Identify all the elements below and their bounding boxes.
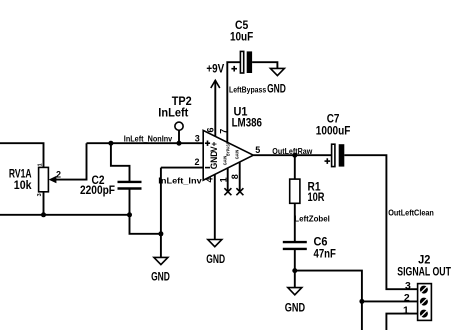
junction under RV1A (41, 212, 46, 217)
pin name GAIN pin1 (223, 156, 228, 166)
svg-text:InLeft_Inv: InLeft_Inv (158, 176, 202, 185)
svg-text:BYPASS: BYPASS (225, 142, 230, 156)
svg-text:SIGNAL OUT: SIGNAL OUT (397, 264, 451, 278)
connector J2 (418, 284, 432, 321)
svg-text:10R: 10R (308, 190, 325, 204)
svg-text:4: 4 (204, 177, 214, 182)
wire C6 node to J2 pin2 (295, 271, 362, 330)
wire pin 7 to C5 (227, 62, 240, 142)
svg-text:GND: GND (285, 301, 305, 315)
wire InLeft_NonInv net (87, 142, 204, 144)
svg-text:2: 2 (194, 157, 199, 167)
junction C2 tap (108, 141, 113, 146)
wire bottom net (0, 214, 130, 216)
ground C5 (267, 68, 286, 95)
ground pin4 (206, 240, 225, 267)
svg-text:LM386: LM386 (232, 116, 263, 130)
svg-text:1: 1 (38, 163, 44, 166)
junction R1 tap (292, 153, 297, 158)
pin 1 number (219, 177, 229, 182)
svg-text:1: 1 (403, 305, 409, 317)
wire pin2 LM386 (161, 167, 203, 169)
wire C2 bottom lead (129, 189, 131, 214)
svg-text:3: 3 (405, 280, 411, 292)
plus input mark (205, 141, 210, 146)
wire J2 pin 1 (386, 314, 417, 330)
svg-text:6: 6 (205, 127, 215, 132)
svg-text:10uF: 10uF (230, 29, 253, 43)
svg-text:8: 8 (230, 174, 240, 179)
wire C2 top lead (111, 143, 130, 181)
pin name GND (209, 150, 219, 169)
test point TP2 (175, 122, 183, 143)
svg-text:10k: 10k (14, 178, 32, 192)
pin 4 number (204, 177, 214, 182)
wire input top to RV1A pin1 (0, 143, 44, 167)
svg-text:GND: GND (206, 252, 225, 266)
capacitor C6 (283, 242, 307, 249)
wire pin 4 to ground (214, 175, 216, 240)
junction J2 pin2 net (359, 299, 364, 304)
pin 1 stub (227, 168, 229, 190)
svg-text:47nF: 47nF (314, 246, 336, 260)
wire OutLeftClean net (344, 155, 417, 289)
wire stub C6 to ground (294, 271, 296, 288)
wire C6 bottom lead (294, 250, 296, 271)
svg-text:2: 2 (56, 169, 61, 179)
minus input mark (205, 167, 210, 169)
wire wiper to noninv net (56, 143, 87, 179)
capacitor C2 (118, 182, 142, 189)
junction C2 bottom (127, 212, 132, 217)
pin 8 stub (239, 162, 241, 190)
pin name V+ (209, 142, 219, 152)
ground left (151, 257, 170, 283)
pin 7 number (219, 129, 229, 134)
wire stub to ground (160, 234, 162, 258)
pin 3 RV1A (37, 193, 43, 196)
wire InLeft_Inv vertical (160, 168, 162, 234)
svg-text:1000uF: 1000uF (316, 124, 351, 138)
no-connect X pin8 (236, 188, 243, 195)
junction TP2 (177, 141, 182, 146)
svg-text:InLeft_NonInv: InLeft_NonInv (124, 135, 173, 144)
potentiometer RV1A body (39, 167, 57, 191)
pin 6 number (205, 127, 215, 132)
wire R1 bottom lead (294, 203, 296, 241)
ground C6 (285, 288, 305, 315)
screw pin 2 (420, 298, 428, 306)
svg-text:GND: GND (209, 150, 219, 169)
svg-text:V+: V+ (209, 142, 219, 152)
resistor R1 (290, 179, 300, 203)
svg-text:3: 3 (195, 134, 200, 144)
svg-text:5: 5 (255, 145, 260, 155)
svg-text:+9V: +9V (206, 61, 224, 75)
svg-text:OutLeftClean: OutLeftClean (388, 208, 434, 217)
wire R1 top lead (294, 155, 296, 179)
pin 8 number (230, 174, 240, 179)
pin name GAIN pin8 (235, 150, 240, 160)
pin 1 RV1A (38, 163, 44, 166)
svg-text:InLeft: InLeft (158, 106, 188, 120)
junction inv gnd node (158, 231, 163, 236)
svg-text:GND: GND (267, 82, 286, 96)
wire C5 to ground (252, 62, 277, 68)
capacitor C7 polarized (325, 144, 345, 166)
op-amp U1 LM386 triangle (203, 130, 253, 180)
wire to J2 pin 2 (362, 300, 418, 302)
svg-text:2200pF: 2200pF (80, 183, 115, 197)
pin name BYPASS (225, 142, 230, 156)
wire bottom net to gnd node (130, 215, 161, 234)
no-connect X pin1 (224, 188, 231, 195)
screw pin 1 (420, 310, 428, 318)
junction C6 bottom (292, 268, 297, 273)
wire OutLeftRaw net (253, 154, 331, 156)
wire RV1A pin3 to bottom net (43, 192, 45, 215)
svg-text:GAIN: GAIN (223, 156, 228, 166)
svg-text:GND: GND (151, 269, 170, 283)
svg-text:2: 2 (404, 292, 410, 304)
svg-text:3: 3 (37, 193, 43, 196)
power +9V symbol (206, 61, 224, 136)
svg-text:LeftZobel: LeftZobel (294, 215, 330, 224)
screw pin 3 (420, 286, 428, 294)
svg-text:LeftBypass: LeftBypass (229, 86, 267, 95)
capacitor C5 polarized (231, 51, 252, 73)
svg-text:GAIN: GAIN (235, 150, 240, 160)
